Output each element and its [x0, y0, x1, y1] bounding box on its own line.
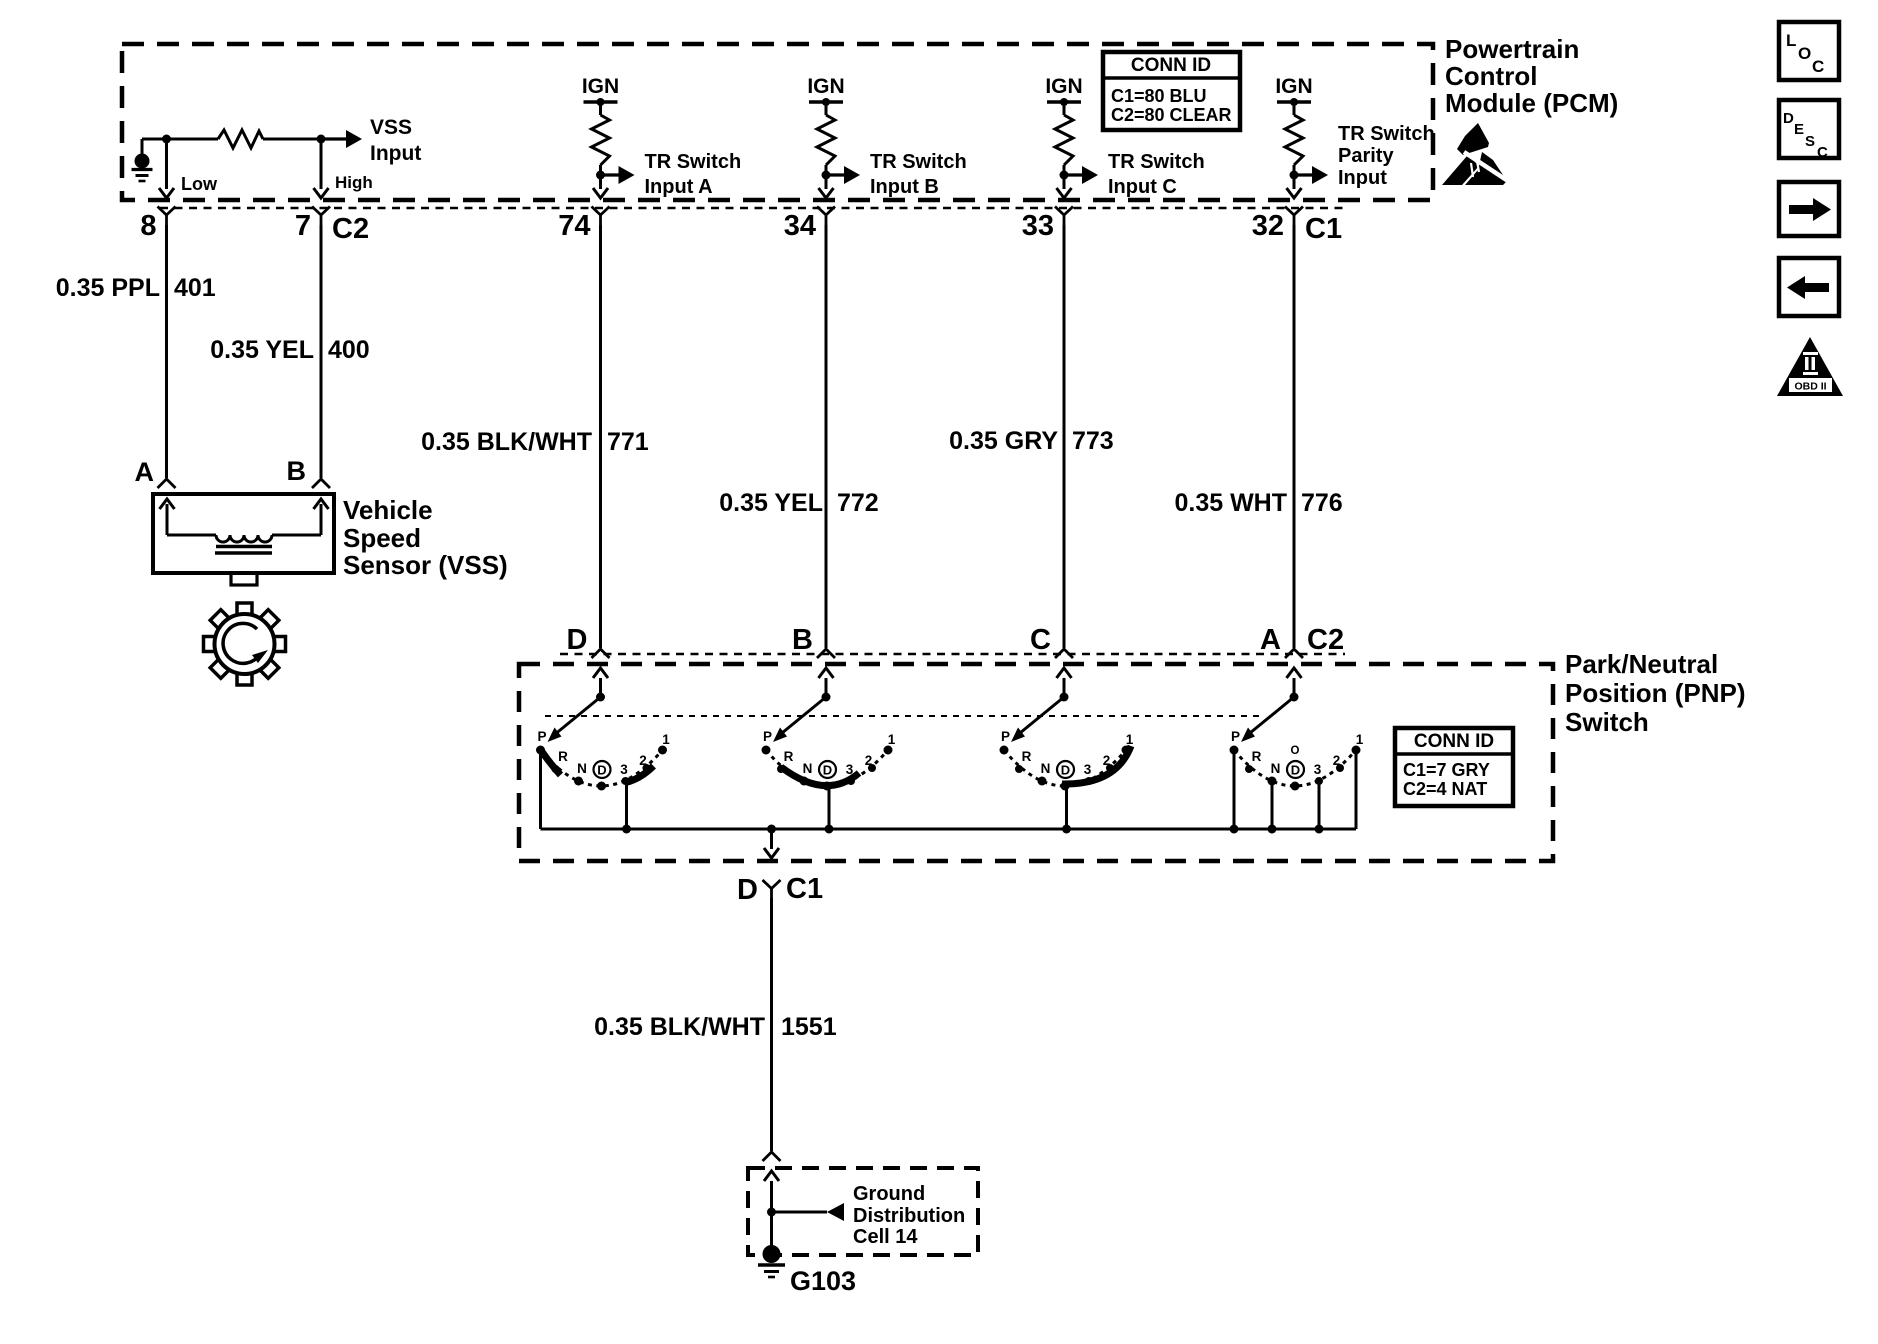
junction dot sw3 on bus	[1062, 825, 1071, 834]
svg-text:B: B	[792, 624, 813, 656]
wire High drop to pin 7	[314, 139, 329, 198]
VSS internal pickup coil	[160, 499, 329, 553]
connector id C2 (PNP)	[1307, 624, 1344, 656]
svg-text:S: S	[1805, 133, 1815, 150]
svg-text:Park/Neutral: Park/Neutral	[1565, 649, 1718, 679]
junction dot sw1-3 on bus	[622, 825, 631, 834]
connector dotted line (PCM harness)	[160, 207, 1345, 210]
svg-text:Vehicle: Vehicle	[343, 495, 433, 525]
svg-text:N: N	[803, 761, 813, 776]
wire 1551 (BLK/WHT) to G103	[763, 898, 781, 1161]
svg-text:0.35 YEL: 0.35 YEL	[210, 336, 314, 364]
resistor R (VSS bias)	[218, 130, 263, 148]
junction dot sw4-N on bus	[1268, 825, 1277, 834]
label Park/Neutral Position (PNP) Switch	[1565, 649, 1746, 737]
LOC nav box	[1779, 22, 1839, 80]
IGN supply bar (TR input A)	[582, 75, 619, 106]
rotary switch 2 (TR input B sense)	[762, 668, 896, 791]
svg-text:IGN: IGN	[807, 75, 844, 98]
label 0.35 GRY 773	[949, 427, 1114, 455]
svg-text:Low: Low	[181, 174, 218, 194]
label TR Switch Input C	[1108, 151, 1205, 198]
svg-text:N: N	[1271, 761, 1281, 776]
svg-text:O: O	[1798, 44, 1811, 63]
svg-text:N: N	[1041, 761, 1051, 776]
svg-text:1: 1	[1126, 732, 1134, 747]
label TR Switch Parity Input	[1338, 123, 1435, 189]
svg-text:0.35 PPL: 0.35 PPL	[56, 274, 160, 302]
CONN ID table (PNP connectors)	[1395, 728, 1513, 806]
switch 1 contact P drop wire	[539, 750, 542, 829]
connector symbol pin D bottom	[763, 880, 781, 898]
connector pin 34	[784, 207, 835, 243]
ground symbol (PCM internal)	[132, 139, 153, 181]
svg-text:Module (PCM): Module (PCM)	[1445, 88, 1618, 118]
svg-text:0.35 BLK/WHT: 0.35 BLK/WHT	[594, 1013, 765, 1041]
svg-text:400: 400	[328, 336, 370, 364]
connector pin D (PNP C1)	[737, 874, 758, 906]
resistor IGN pull-up C	[1055, 102, 1073, 175]
connector pin 74	[558, 207, 609, 243]
label TR Switch Input B	[870, 151, 967, 198]
wire drop to pin (TR input B)	[819, 175, 834, 198]
svg-text:B: B	[287, 456, 307, 486]
svg-text:771: 771	[607, 428, 649, 456]
svg-text:1: 1	[1356, 732, 1364, 747]
svg-text:2: 2	[1333, 753, 1341, 768]
svg-text:8: 8	[140, 210, 156, 242]
svg-text:32: 32	[1252, 210, 1284, 242]
PNP internal dotted lever line	[545, 715, 1260, 717]
svg-text:P: P	[1231, 729, 1240, 744]
svg-text:34: 34	[784, 210, 816, 242]
svg-text:Ground: Ground	[853, 1183, 925, 1205]
connector pin B (PNP)	[792, 624, 813, 656]
wire 776 (WHT) pin 32 to PNP A	[1285, 225, 1303, 658]
wire 772 (YEL) pin 34 to PNP B	[817, 225, 835, 658]
IGN supply bar (TR input B)	[807, 75, 844, 106]
switch 3 wiper drop wire	[1065, 786, 1068, 829]
svg-text:Powertrain: Powertrain	[1445, 34, 1579, 64]
svg-text:R: R	[558, 749, 568, 764]
VSS mounting tab	[231, 573, 257, 585]
svg-text:High: High	[335, 173, 373, 192]
svg-text:A: A	[1260, 624, 1281, 656]
svg-text:TR Switch: TR Switch	[1108, 151, 1205, 173]
svg-text:Input C: Input C	[1108, 176, 1177, 198]
svg-text:IGN: IGN	[1275, 75, 1312, 98]
svg-text:C2=4 NAT: C2=4 NAT	[1403, 779, 1487, 799]
PCM module dashed outline	[122, 44, 1433, 200]
wire to ground G103	[770, 1212, 773, 1246]
svg-text:N: N	[577, 761, 587, 776]
label 0.35 YEL 772	[719, 489, 879, 517]
arrow TR Switch input PARITY	[1294, 166, 1328, 184]
DESC nav box	[1779, 100, 1839, 161]
ESD sensitivity symbol	[1442, 123, 1508, 185]
IGN supply bar (TR input PARITY)	[1275, 75, 1312, 106]
switch 4 contact N drop wire	[1271, 781, 1274, 829]
svg-text:A: A	[135, 457, 155, 487]
svg-text:Speed: Speed	[343, 523, 421, 553]
connector pin 7	[295, 207, 330, 243]
junction dot sw4-3 on bus	[1315, 825, 1324, 834]
junction dot TR input A	[596, 171, 605, 180]
svg-text:1551: 1551	[781, 1013, 837, 1041]
svg-text:7: 7	[295, 210, 311, 242]
svg-text:OBD II: OBD II	[1794, 381, 1826, 393]
svg-text:C: C	[1812, 57, 1824, 76]
resistor IGN pull-up PARITY	[1285, 102, 1303, 175]
label Low	[181, 174, 218, 194]
ground distribution reference arrow	[772, 1203, 845, 1221]
connector pin C (PNP)	[1030, 624, 1051, 656]
reluctor gear symbol	[204, 603, 286, 685]
bus output arrow to pin D	[764, 829, 779, 858]
left-arrow nav box	[1779, 258, 1839, 316]
svg-text:Position (PNP): Position (PNP)	[1565, 678, 1746, 708]
connector dotted line (PNP harness)	[560, 653, 1345, 656]
junction dot bus output	[767, 825, 776, 834]
svg-text:2: 2	[1103, 753, 1111, 768]
switch 1 contact 3 drop wire	[625, 783, 628, 829]
svg-text:VSS: VSS	[370, 116, 412, 139]
svg-text:Cell 14: Cell 14	[853, 1226, 918, 1248]
PCM module label Powertrain Control Module (PCM)	[1445, 34, 1618, 118]
svg-text:401: 401	[174, 274, 216, 302]
svg-text:776: 776	[1301, 489, 1343, 517]
svg-text:CONN ID: CONN ID	[1131, 55, 1211, 76]
label Vehicle Speed Sensor (VSS)	[343, 495, 508, 580]
svg-text:0.35 YEL: 0.35 YEL	[719, 489, 823, 517]
svg-text:0.35 WHT: 0.35 WHT	[1174, 489, 1287, 517]
wire drop to pin (TR input C)	[1057, 175, 1072, 198]
svg-text:C1=7 GRY: C1=7 GRY	[1403, 760, 1490, 780]
resistor IGN pull-up B	[817, 102, 835, 175]
svg-text:P: P	[1001, 729, 1010, 744]
svg-text:CONN ID: CONN ID	[1414, 731, 1494, 752]
label 0.35 YEL 400	[210, 336, 370, 364]
PNP common ground bus wire	[541, 828, 1357, 831]
svg-text:C2=80 CLEAR: C2=80 CLEAR	[1111, 105, 1232, 125]
wire drop to pin (TR input A)	[593, 175, 608, 198]
svg-text:D: D	[1783, 110, 1794, 127]
svg-text:C1: C1	[1305, 213, 1342, 245]
svg-text:3: 3	[620, 762, 628, 777]
arrow to VSS Input	[321, 130, 362, 148]
svg-text:Input: Input	[1338, 167, 1387, 189]
svg-text:C1: C1	[786, 873, 823, 905]
svg-text:C2: C2	[332, 213, 369, 245]
rotary switch 3 (TR input C sense)	[1000, 668, 1134, 791]
label Ground Distribution Cell 14	[853, 1183, 965, 1248]
svg-text:2: 2	[639, 753, 647, 768]
junction dot TR input B	[822, 171, 831, 180]
VSS sensor box	[153, 494, 334, 573]
wire 771 (BLK/WHT) pin 74 to PNP D	[592, 225, 610, 658]
resistor IGN pull-up A	[592, 102, 610, 175]
label 0.35 BLK/WHT 1551	[594, 1013, 837, 1041]
svg-text:C: C	[1030, 624, 1051, 656]
rotary switch 4 (parity sense)	[1230, 668, 1364, 791]
svg-text:D: D	[1291, 763, 1300, 778]
wire drop to pin (TR input PARITY)	[1287, 175, 1302, 198]
junction dot sw4-P on bus	[1230, 825, 1239, 834]
svg-text:Input: Input	[370, 142, 421, 165]
svg-text:L: L	[1786, 31, 1796, 50]
svg-text:D: D	[567, 624, 588, 656]
arrow TR Switch input B	[826, 166, 860, 184]
junction dot Low node	[162, 135, 171, 144]
connector pin 32	[1252, 207, 1303, 243]
pin label A (VSS)	[135, 457, 155, 487]
svg-text:0.35 BLK/WHT: 0.35 BLK/WHT	[421, 428, 592, 456]
wire ground to node Low	[142, 138, 218, 141]
label TR Switch Input A	[645, 151, 742, 198]
svg-text:3: 3	[1314, 762, 1322, 777]
svg-text:P: P	[763, 729, 772, 744]
junction dot sw2 on bus	[825, 825, 834, 834]
svg-text:33: 33	[1022, 210, 1054, 242]
PNP switch dashed outline	[519, 664, 1553, 861]
svg-text:TR Switch: TR Switch	[870, 151, 967, 173]
svg-text:Input A: Input A	[645, 176, 713, 198]
svg-text:Distribution: Distribution	[853, 1205, 965, 1227]
wire resistor to node High	[263, 138, 321, 141]
switch 4 contact 3 drop wire	[1318, 781, 1321, 829]
svg-text:O: O	[1291, 745, 1300, 757]
ground dist entry arrow	[764, 1171, 779, 1212]
connector id C2 (PCM)	[332, 213, 369, 245]
right-arrow nav box	[1779, 182, 1839, 236]
junction dot TR input PARITY	[1290, 171, 1299, 180]
svg-text:1: 1	[662, 732, 670, 747]
svg-text:R: R	[1252, 749, 1262, 764]
OBD II triangle icon	[1777, 337, 1843, 396]
ground distribution dashed box	[748, 1168, 978, 1255]
connector pin A (PNP)	[1260, 624, 1281, 656]
svg-text:Switch: Switch	[1565, 707, 1649, 737]
connector id C1 (PCM)	[1305, 213, 1342, 245]
switch 4 contact P drop wire	[1233, 750, 1236, 829]
svg-text:D: D	[737, 874, 758, 906]
svg-text:772: 772	[837, 489, 879, 517]
wire 773 (GRY) pin 33 to PNP C	[1055, 225, 1073, 658]
junction dot ground node	[767, 1208, 776, 1217]
label High	[335, 173, 373, 192]
rotary switch 1 (TR input A sense)	[536, 668, 670, 791]
label VSS Input	[370, 116, 421, 165]
svg-text:2: 2	[865, 753, 873, 768]
svg-text:G103: G103	[790, 1266, 856, 1296]
CONN ID table (PCM connectors)	[1103, 52, 1240, 130]
ground symbol G103	[758, 1245, 785, 1277]
svg-text:D: D	[597, 763, 606, 778]
arrow TR Switch input C	[1064, 166, 1098, 184]
label 0.35 PPL 401	[56, 274, 216, 302]
label 0.35 BLK/WHT 771	[421, 428, 649, 456]
label 0.35 WHT 776	[1174, 489, 1342, 517]
connector pin D (PNP)	[567, 624, 588, 656]
junction dot High node	[317, 135, 326, 144]
svg-text:C1=80 BLU: C1=80 BLU	[1111, 86, 1207, 106]
wire 401 (PPL) pin 8 to VSS A	[158, 225, 176, 488]
svg-text:74: 74	[558, 210, 590, 242]
svg-text:IGN: IGN	[582, 75, 619, 98]
wire Low drop to pin 8	[159, 139, 174, 198]
switch 4 contact 1 drop wire	[1355, 750, 1358, 829]
svg-text:1: 1	[888, 732, 896, 747]
label G103	[790, 1266, 856, 1296]
svg-text:Input B: Input B	[870, 176, 939, 198]
IGN supply bar (TR input C)	[1045, 75, 1082, 106]
svg-text:3: 3	[1084, 762, 1092, 777]
pin label B (VSS)	[287, 456, 307, 486]
svg-text:Parity: Parity	[1338, 145, 1394, 167]
svg-text:IGN: IGN	[1045, 75, 1082, 98]
svg-text:Control: Control	[1445, 61, 1537, 91]
svg-text:C: C	[1817, 144, 1828, 161]
svg-text:TR Switch: TR Switch	[645, 151, 742, 173]
svg-text:R: R	[1022, 749, 1032, 764]
connector pin 33	[1022, 207, 1073, 243]
wire 400 (YEL) pin 7 to VSS B	[312, 225, 330, 488]
svg-text:P: P	[537, 729, 546, 744]
svg-text:R: R	[784, 749, 794, 764]
svg-text:D: D	[823, 763, 832, 778]
svg-text:TR Switch: TR Switch	[1338, 123, 1435, 145]
svg-text:E: E	[1794, 121, 1804, 138]
svg-text:C2: C2	[1307, 624, 1344, 656]
connector id C1 (PNP)	[786, 873, 823, 905]
arrow TR Switch input A	[601, 166, 635, 184]
junction dot TR input C	[1060, 171, 1069, 180]
connector pin 8	[140, 207, 175, 243]
switch 2 wiper drop wire	[828, 789, 831, 829]
svg-text:D: D	[1061, 763, 1070, 778]
svg-text:773: 773	[1072, 427, 1114, 455]
svg-text:Sensor (VSS): Sensor (VSS)	[343, 550, 508, 580]
svg-text:0.35 GRY: 0.35 GRY	[949, 427, 1058, 455]
